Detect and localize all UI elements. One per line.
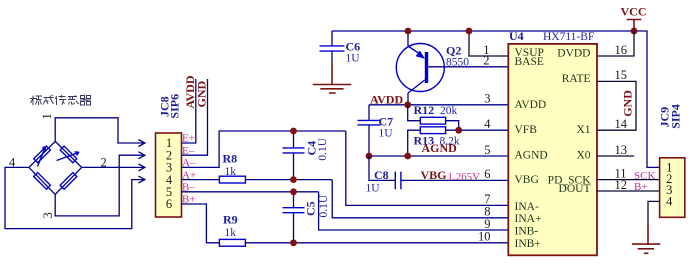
svg-text:10: 10 bbox=[478, 229, 491, 243]
IC U4 box bbox=[508, 44, 597, 255]
svg-text:2: 2 bbox=[483, 53, 489, 67]
svg-text:INB-: INB- bbox=[515, 226, 539, 238]
wire A- route to node row bbox=[182, 131, 346, 167]
AGND wire to U4 pin5 bbox=[369, 155, 508, 157]
JC9 pin numbers bbox=[666, 160, 673, 208]
svg-text:8550: 8550 bbox=[446, 57, 469, 69]
wire JC8.1 to AVDD bbox=[182, 79, 196, 143]
junction AGND/C7 bbox=[366, 153, 373, 160]
svg-text:C7: C7 bbox=[379, 115, 394, 129]
wire INB- down to pin9 bbox=[319, 192, 509, 230]
svg-text:1U: 1U bbox=[366, 183, 381, 195]
pin 16 wire bbox=[597, 31, 634, 56]
svg-text:4: 4 bbox=[666, 195, 673, 209]
pin 13 stub X0 bbox=[597, 155, 634, 157]
bridge: wire node1 top to JC8 pin1 bbox=[55, 118, 145, 143]
svg-text:SIP6: SIP6 bbox=[168, 94, 182, 119]
transistor Q2 emitter wire bbox=[407, 31, 409, 46]
junction A- row / C4 bbox=[290, 128, 297, 135]
ground stem bbox=[647, 225, 649, 244]
svg-text:E+: E+ bbox=[182, 133, 195, 145]
resistor R13 left lead bbox=[408, 130, 421, 156]
wire INA- down to pin7 bbox=[346, 131, 509, 205]
svg-text:U4: U4 bbox=[509, 29, 524, 43]
svg-text:1.265V: 1.265V bbox=[447, 171, 480, 183]
junction A+ row / C4 bbox=[290, 176, 297, 183]
wire JC8.6 to R9 bbox=[182, 204, 220, 243]
svg-text:C5: C5 bbox=[304, 201, 318, 216]
svg-text:R12: R12 bbox=[414, 103, 435, 117]
junction B- row / C5 bbox=[290, 188, 297, 195]
svg-text:GND: GND bbox=[195, 81, 209, 108]
svg-text:1U: 1U bbox=[379, 128, 394, 140]
junction AVDD/Q2/R12 bbox=[404, 101, 411, 108]
svg-text:GND: GND bbox=[621, 90, 635, 117]
strain gauge R top-left bbox=[34, 146, 51, 163]
svg-text:4: 4 bbox=[484, 117, 491, 131]
capacitor C7 stem bbox=[368, 105, 370, 120]
Q2 base bar bbox=[425, 52, 428, 83]
svg-text:1k: 1k bbox=[225, 227, 237, 239]
C5 plates bbox=[283, 208, 305, 213]
svg-text:2: 2 bbox=[101, 156, 107, 170]
junction rail/pin1 bbox=[466, 28, 473, 35]
svg-text:DOUT: DOUT bbox=[559, 183, 591, 195]
svg-text:RATE: RATE bbox=[562, 73, 591, 85]
junction AGND/R13 bbox=[404, 153, 411, 160]
bridge: wire node3 bottom to JC8 pin2 bbox=[55, 155, 145, 216]
capacitor C8 plates (vertical) bbox=[395, 172, 401, 190]
svg-text:13: 13 bbox=[615, 143, 628, 157]
pin 1 wire from rail bbox=[469, 31, 508, 56]
svg-text:1k: 1k bbox=[225, 166, 237, 178]
svg-text:INA+: INA+ bbox=[515, 213, 542, 225]
svg-text:6: 6 bbox=[484, 167, 490, 181]
svg-text:0.1U: 0.1U bbox=[317, 137, 329, 160]
resistor R12 leads bbox=[408, 105, 421, 121]
svg-text:20k: 20k bbox=[440, 105, 458, 117]
strain gauge R top-right bbox=[60, 146, 77, 163]
svg-text:5: 5 bbox=[484, 143, 490, 157]
bridge diamond outline bbox=[29, 141, 82, 194]
C7 lower stem bbox=[368, 125, 370, 156]
resistor R13 bbox=[420, 127, 445, 134]
Q2 collector wire bbox=[407, 93, 409, 105]
JC9.4 ground wire bbox=[648, 201, 660, 225]
junction rail/VCC/pin16 bbox=[631, 28, 638, 35]
top VCC rail bbox=[332, 31, 660, 167]
Q2 collector diagonal bbox=[408, 80, 425, 93]
resistor R9 bbox=[219, 239, 245, 246]
svg-text:3: 3 bbox=[41, 212, 55, 218]
wire C8 to U4 pin6 VBG bbox=[401, 179, 508, 181]
arrow on top-right gauge bbox=[57, 152, 80, 161]
svg-text:C6: C6 bbox=[346, 40, 361, 54]
C6 ground stem bbox=[331, 62, 333, 85]
svg-text:BASE: BASE bbox=[515, 56, 544, 68]
wire JC8.2 to GND bbox=[182, 79, 208, 155]
JC8 pin numbers bbox=[166, 136, 173, 211]
Q2 base wire to U4 pin2 bbox=[428, 66, 508, 68]
svg-text:HX711-BF: HX711-BF bbox=[543, 31, 594, 43]
resistor R12 bbox=[420, 117, 445, 124]
svg-text:VFB: VFB bbox=[515, 124, 538, 136]
svg-text:1U: 1U bbox=[346, 53, 361, 65]
svg-text:4: 4 bbox=[9, 156, 16, 170]
resistor R8 bbox=[219, 176, 245, 183]
connector JC8 box bbox=[156, 133, 182, 217]
svg-text:E–: E– bbox=[182, 145, 195, 157]
AVDD net wire to U4 pin3 bbox=[369, 104, 508, 106]
svg-text:1: 1 bbox=[40, 113, 54, 119]
svg-text:12: 12 bbox=[615, 178, 628, 192]
svg-text:SIP4: SIP4 bbox=[669, 104, 683, 129]
svg-text:C8: C8 bbox=[374, 168, 389, 182]
C6 plates bbox=[320, 46, 345, 51]
junction B+ row / C5 bbox=[290, 239, 297, 246]
capacitor C4 top stem bbox=[293, 131, 295, 147]
svg-text:15: 15 bbox=[615, 68, 628, 82]
title 桥式传感器 (bridge sensor, drawn strokes) bbox=[30, 95, 91, 105]
svg-text:X1: X1 bbox=[576, 124, 590, 136]
capacitor C6 stem bbox=[331, 31, 333, 45]
svg-text:B+: B+ bbox=[634, 181, 648, 193]
C6 lower stem bbox=[331, 52, 333, 62]
arrowhead pin1 bbox=[138, 140, 145, 147]
C7 plates bbox=[358, 120, 381, 125]
svg-text:INA-: INA- bbox=[515, 201, 539, 213]
svg-text:DVDD: DVDD bbox=[557, 48, 590, 60]
arrow on top-left gauge bbox=[38, 147, 46, 167]
svg-text:14: 14 bbox=[615, 117, 628, 131]
svg-text:X0: X0 bbox=[576, 150, 590, 162]
wire R9 to pin10 INB+ bbox=[245, 242, 508, 244]
R12 right lead bbox=[446, 121, 459, 131]
svg-text:R8: R8 bbox=[223, 152, 238, 166]
gauge R bottom-right bbox=[60, 173, 77, 190]
svg-text:SCK: SCK bbox=[634, 170, 655, 182]
svg-text:AVDD: AVDD bbox=[370, 93, 403, 107]
Q2 circle bbox=[396, 44, 444, 92]
gauge R bottom-left bbox=[34, 173, 51, 190]
pin 12 wire to JC9.3 bbox=[597, 190, 660, 192]
junction VFB/R12 bbox=[455, 127, 462, 134]
arrowhead pin3 bbox=[138, 164, 145, 171]
svg-text:VBG: VBG bbox=[421, 168, 447, 182]
wire VFB row to U4 pin4 bbox=[446, 129, 509, 131]
ground symbol under C6 bbox=[313, 85, 352, 94]
wire INA+ down to pin8 bbox=[332, 180, 508, 218]
svg-text:R9: R9 bbox=[223, 213, 238, 227]
C4 plates bbox=[283, 148, 305, 153]
bridge: wire node2 right to JC8 pin3 bbox=[82, 166, 145, 168]
svg-text:VBG: VBG bbox=[515, 174, 539, 186]
svg-text:3: 3 bbox=[484, 92, 490, 106]
wire JC8.4 to R8 bbox=[182, 179, 220, 181]
wire AGND down to C8 bbox=[369, 156, 395, 180]
svg-text:INB+: INB+ bbox=[515, 238, 541, 250]
svg-text:AGND: AGND bbox=[515, 150, 548, 162]
wire R8 to INA+ column bbox=[245, 179, 332, 181]
svg-text:Q2: Q2 bbox=[446, 44, 461, 58]
svg-text:AVDD: AVDD bbox=[515, 99, 547, 111]
Q2 emitter diagonal with arrow bbox=[408, 46, 420, 54]
capacitor C5 top stem bbox=[293, 192, 295, 207]
arrowhead pin2 bbox=[138, 152, 145, 159]
wire JC8.5 B- row bbox=[182, 191, 319, 193]
connector JC9 box bbox=[660, 158, 685, 218]
ground symbol under JC9 bbox=[632, 244, 660, 253]
VCC symbol bbox=[627, 20, 642, 32]
svg-text:VCC: VCC bbox=[621, 5, 647, 19]
svg-text:16: 16 bbox=[615, 43, 628, 57]
pin 15/14 GND loop wire bbox=[597, 81, 636, 130]
pin 11 wire to JC9.2 bbox=[597, 179, 660, 181]
svg-text:6: 6 bbox=[166, 197, 172, 211]
bridge: wire node4 left to JC8 pin4 bbox=[5, 167, 145, 228]
junction rail/Q2 emitter bbox=[405, 28, 412, 35]
C4 bottom stem bbox=[293, 153, 295, 179]
svg-text:0.1U: 0.1U bbox=[318, 194, 330, 217]
svg-text:AGND: AGND bbox=[422, 141, 458, 155]
C5 bottom stem bbox=[293, 213, 295, 243]
arrowhead pin4 bbox=[138, 176, 145, 183]
